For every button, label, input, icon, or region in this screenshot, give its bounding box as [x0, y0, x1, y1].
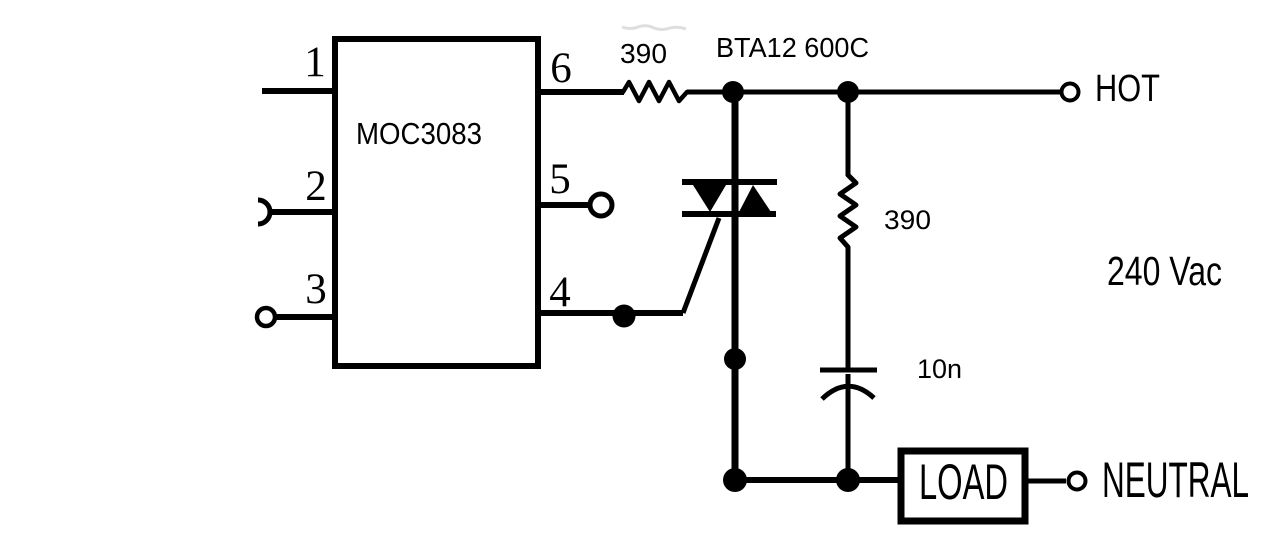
svg-text:390: 390	[620, 38, 667, 69]
svg-text:6: 6	[550, 45, 572, 92]
svg-text:10n: 10n	[917, 354, 962, 384]
svg-text:390: 390	[884, 205, 931, 235]
svg-text:5: 5	[549, 156, 571, 203]
svg-text:MOC3083: MOC3083	[356, 116, 482, 151]
svg-text:NEUTRAL: NEUTRAL	[1102, 452, 1249, 508]
svg-text:4: 4	[549, 269, 571, 316]
svg-text:2: 2	[305, 163, 327, 210]
svg-text:3: 3	[305, 266, 327, 313]
svg-text:240 Vac: 240 Vac	[1107, 248, 1222, 294]
svg-text:1: 1	[304, 39, 326, 86]
svg-text:LOAD: LOAD	[919, 454, 1008, 510]
svg-text:HOT: HOT	[1095, 68, 1160, 110]
svg-text:BTA12 600C: BTA12 600C	[716, 32, 869, 63]
